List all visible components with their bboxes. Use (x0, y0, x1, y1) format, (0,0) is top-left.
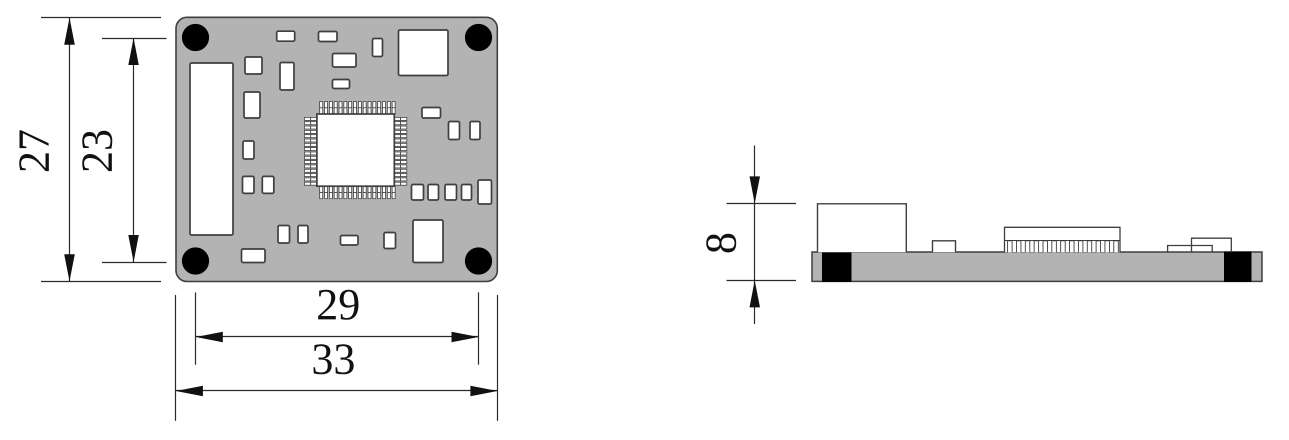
component H (333, 54, 357, 68)
component S3 (445, 185, 457, 201)
PCB bar (side view) (812, 252, 1262, 281)
svg-text:8: 8 (697, 232, 746, 254)
dimension 27: extension line top (41, 17, 161, 19)
dimension 33: arrow left (176, 386, 203, 396)
dimension 27: extension line bottom (41, 281, 161, 283)
connector J1 (left vertical) (190, 63, 233, 235)
dimension 27: arrow down (64, 254, 75, 281)
dimension 33: extension line right (497, 295, 499, 421)
svg-text:29: 29 (316, 280, 360, 329)
component L (470, 122, 480, 140)
dimension 29: extension line left (195, 292, 197, 364)
component M (243, 141, 254, 159)
svg-text:33: 33 (311, 334, 355, 383)
component K (449, 122, 460, 140)
IC U1 body (QFP) (317, 114, 394, 186)
dimension 29: extension line right (478, 292, 480, 364)
component F (large square top-right) (399, 30, 449, 76)
component T (478, 180, 492, 204)
side view right low component (1168, 246, 1213, 253)
dimension 8: arrow up (below) (750, 280, 761, 307)
component S1 (412, 185, 424, 201)
component R (242, 249, 266, 263)
component S4 (462, 185, 472, 201)
component B (319, 32, 338, 42)
IC U1 right pins (394, 117, 407, 185)
component W (large rect bottom-right) (413, 220, 443, 263)
component G (373, 39, 383, 57)
dimension 27: arrow up (64, 18, 75, 45)
component U2 (341, 236, 359, 246)
component Q (298, 226, 308, 244)
svg-text:27: 27 (10, 129, 59, 173)
dimension 23: extension line bottom (102, 262, 167, 264)
dimension 23: extension line top (102, 38, 167, 40)
dimension 8: extension line bottom (727, 280, 797, 282)
dimension 33: arrow right (470, 386, 497, 396)
IC U1 top pins (320, 102, 395, 115)
mounting hole bottom-left (182, 247, 209, 274)
side view pin header body (1005, 227, 1121, 252)
side view right tall component (1192, 238, 1232, 252)
component C (245, 57, 262, 74)
dimension 8: arrow down (above) (750, 176, 761, 203)
side view connector box (left tall) (818, 204, 907, 253)
component E (244, 92, 260, 118)
dimension 29: arrow right (452, 332, 479, 342)
component N (243, 176, 255, 193)
dimension 29: arrow left (196, 332, 223, 342)
IC U1 bottom pins (320, 186, 395, 199)
component P (278, 226, 290, 244)
dimension 29: dimension line (196, 336, 479, 338)
component D (280, 63, 294, 91)
mounting hole bottom-right (465, 247, 492, 274)
component S2 (428, 185, 439, 201)
component I (333, 80, 350, 89)
dimension 8: dimension line (754, 146, 756, 325)
side view right black pad (1225, 252, 1252, 281)
component J (422, 108, 441, 119)
component O (262, 176, 274, 193)
mounting hole top-right (465, 24, 492, 51)
component V (384, 233, 396, 249)
side view left black pad (823, 252, 852, 281)
side view small component (933, 241, 956, 253)
dimension 33: extension line left (175, 295, 177, 421)
dimension 27: dimension line (69, 18, 71, 282)
PCB board outline (top view) (176, 17, 497, 281)
component A (277, 31, 295, 41)
dimension 8: extension line top (727, 203, 797, 205)
IC U1 left pins (304, 117, 317, 185)
side view pin header pins (1008, 241, 1119, 253)
mounting hole top-left (182, 24, 209, 51)
side view pin header bottom line (1005, 240, 1121, 242)
dimension 23: arrow down (128, 235, 139, 262)
dimension 33: dimension line (176, 390, 498, 392)
svg-text:23: 23 (73, 129, 122, 173)
dimension 23: dimension line (133, 38, 135, 262)
dimension 23: arrow up (128, 38, 139, 65)
